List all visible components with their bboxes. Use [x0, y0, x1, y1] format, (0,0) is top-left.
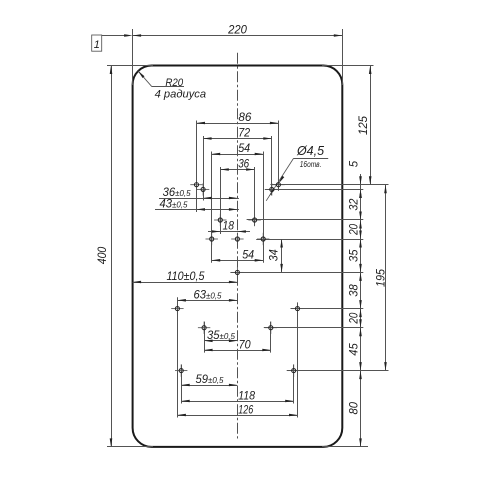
svg-text:195: 195: [376, 268, 388, 287]
svg-text:70: 70: [239, 339, 252, 351]
dimension 5 right: [360, 174, 362, 185]
svg-text:5: 5: [348, 160, 360, 167]
extension line bottom edge right for 80: [322, 446, 368, 448]
svg-text:400: 400: [97, 246, 109, 264]
svg-text:220: 220: [227, 25, 247, 37]
hole r3 left: [214, 219, 226, 221]
svg-text:16отв.: 16отв.: [300, 160, 322, 169]
position marker 1 box: [92, 35, 102, 51]
leader from marker 1 to dimension 220: [102, 35, 126, 37]
hole r6 left: [171, 308, 183, 310]
svg-text:126: 126: [238, 404, 253, 416]
svg-text:1: 1: [94, 39, 100, 51]
svg-text:110±0,5: 110±0,5: [167, 271, 206, 283]
dimension 220 top: [133, 35, 343, 37]
dimension 45 right: [360, 328, 362, 371]
dimension 36±0,5: [159, 198, 239, 200]
plate outline 220x400 R20: [133, 66, 343, 447]
svg-text:80: 80: [348, 401, 360, 414]
svg-text:4 радиуса: 4 радиуса: [155, 88, 207, 100]
dimension 110±0,5: [133, 282, 238, 284]
svg-text:34: 34: [268, 249, 280, 261]
svg-text:35: 35: [348, 249, 360, 262]
svg-text:125: 125: [358, 115, 370, 135]
hole r5 center: [231, 271, 243, 273]
extension r6 left hole vertical: [177, 297, 179, 417]
extension line top-right corner up for 220: [342, 29, 344, 85]
hole r1 left: [190, 184, 202, 186]
leader Ø4,5 to holes: [294, 158, 329, 160]
extension r6 right hole vertical: [297, 303, 299, 418]
extension r2 right hole vertical: [271, 136, 273, 195]
dimension 54 lower: [212, 260, 264, 262]
dimension 20 right upper: [360, 220, 362, 239]
svg-text:20: 20: [348, 223, 360, 235]
dimension 59±0,5: [181, 385, 237, 387]
svg-text:72: 72: [238, 128, 251, 140]
extension r7 right hole vertical: [270, 322, 272, 353]
dimension 32 right: [360, 189, 362, 220]
row line r4 to chain column: [256, 239, 363, 241]
dimension 34 vertical: [281, 239, 283, 272]
dimension 195 right: [385, 185, 387, 371]
extension line top edge right for 125: [322, 65, 374, 67]
svg-text:118: 118: [238, 390, 256, 402]
svg-text:Ø4,5: Ø4,5: [296, 144, 324, 158]
extension line bottom edge left for 400: [107, 446, 153, 448]
leader R20 radius callout: [138, 71, 152, 87]
hole r6 right: [291, 308, 303, 310]
hole r2 right: [266, 188, 278, 190]
row line r5 to chain column: [230, 272, 363, 274]
row line r2 to chain column: [265, 189, 364, 191]
extension r3 right hole vertical: [254, 167, 256, 226]
hole r7 right: [265, 327, 277, 329]
row line r6 to chain column: [291, 308, 364, 310]
extension r4 right hole vertical: [263, 152, 265, 263]
extension r7 left hole vertical: [204, 322, 206, 353]
vertical centerline: [237, 53, 239, 439]
dimension 80 right: [360, 371, 362, 447]
extension line top-left corner up for 220: [132, 29, 134, 85]
extension r8 right hole vertical: [293, 365, 295, 404]
hole r8 left: [175, 370, 187, 372]
hole r4 left: [206, 238, 218, 240]
dimension 126: [177, 415, 297, 417]
svg-text:36: 36: [238, 159, 250, 171]
dimension 118: [181, 401, 294, 403]
svg-text:54: 54: [238, 143, 250, 155]
dimension 400 left: [111, 66, 113, 447]
hole r8 right: [288, 370, 300, 372]
hole r7 left: [198, 327, 210, 329]
extension line top edge left for 400: [107, 65, 153, 67]
svg-text:38: 38: [348, 284, 360, 297]
dimension 36: [220, 169, 254, 171]
svg-text:43±0,5: 43±0,5: [160, 199, 188, 211]
dimension 18: [208, 231, 250, 233]
svg-text:18: 18: [223, 221, 235, 233]
dimension 35 right: [360, 239, 362, 272]
dimension 63±0,5: [177, 300, 237, 302]
svg-text:54: 54: [242, 250, 254, 262]
extension r2 left hole vertical: [203, 136, 205, 201]
svg-text:R20: R20: [165, 77, 184, 89]
hole r4 right: [257, 238, 269, 240]
dimension 20 right lower: [360, 309, 362, 328]
row line r8 to 195 column: [287, 370, 389, 372]
hole r1 right: [272, 184, 284, 186]
dimension 70: [204, 350, 271, 352]
svg-text:63±0,5: 63±0,5: [194, 290, 222, 302]
dimension 54 upper: [212, 154, 264, 156]
hole r3 right: [248, 219, 260, 221]
extension r1 left hole vertical: [196, 121, 198, 213]
extension r3 left hole vertical: [220, 167, 222, 234]
dimension 35±0,5: [204, 340, 237, 342]
row line r3 to chain column: [247, 219, 364, 221]
hole r2 left: [197, 188, 209, 190]
dimension 72: [203, 138, 272, 140]
extension r8 left hole vertical: [181, 365, 183, 404]
dimension 86: [197, 123, 279, 125]
extension r4 left hole vertical: [211, 152, 213, 263]
svg-text:36±0,5: 36±0,5: [163, 187, 191, 199]
dimension 125 right: [370, 66, 372, 185]
svg-text:59±0,5: 59±0,5: [196, 374, 224, 386]
dimension 38 right: [360, 272, 362, 308]
row line r1 to right columns: [270, 184, 388, 186]
dimension 43±0,5: [155, 209, 239, 211]
svg-text:20: 20: [348, 312, 360, 324]
svg-text:45: 45: [348, 343, 360, 356]
extension r1 right hole vertical: [278, 121, 280, 191]
row line r7 to chain column: [264, 327, 364, 329]
hole r4 center: [231, 238, 243, 240]
svg-text:35±0,5: 35±0,5: [207, 330, 235, 342]
svg-text:32: 32: [348, 198, 360, 211]
svg-text:86: 86: [238, 112, 252, 124]
